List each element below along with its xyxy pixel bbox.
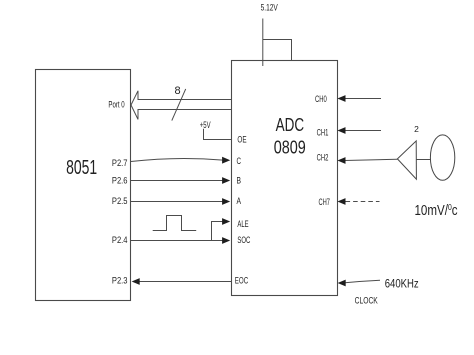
bus Port 0 to ADC (hollow arrow) bbox=[131, 91, 232, 120]
svg-text:CH1: CH1 bbox=[317, 128, 329, 138]
svg-text:P2.3: P2.3 bbox=[112, 276, 128, 286]
IC U2 ADC0809 box bbox=[232, 61, 338, 296]
wire EOC to P2.3 bbox=[139, 281, 232, 283]
wire P2.4 to SOC bbox=[131, 240, 223, 242]
wire transducer triangle to sensor bbox=[416, 159, 430, 161]
svg-text:8051: 8051 bbox=[66, 157, 97, 179]
wire P2.6 to B bbox=[131, 180, 223, 182]
sensor ellipse bbox=[430, 135, 454, 180]
svg-text:OE: OE bbox=[237, 134, 246, 144]
svg-text:+5V: +5V bbox=[200, 120, 211, 130]
svg-text:CH0: CH0 bbox=[315, 94, 327, 104]
svg-text:P2.4: P2.4 bbox=[112, 235, 128, 245]
pulse waveform symbol bbox=[153, 216, 197, 231]
wire P2.5 to A bbox=[131, 201, 223, 203]
svg-text:10mV/0c: 10mV/0c bbox=[415, 202, 458, 219]
svg-text:ALE: ALE bbox=[237, 219, 248, 229]
wire branch P2.4 to ALE bbox=[212, 222, 223, 241]
svg-text:P2.7: P2.7 bbox=[112, 158, 128, 168]
wire P2.7 to C bbox=[131, 158, 223, 161]
transducer amplifier triangle bbox=[397, 141, 416, 179]
svg-text:P2.6: P2.6 bbox=[112, 176, 128, 186]
svg-text:B: B bbox=[237, 176, 242, 186]
wire 5.1V vertical lead bbox=[262, 19, 264, 67]
IC U1 8051 box bbox=[36, 70, 131, 301]
svg-text:8: 8 bbox=[174, 85, 180, 97]
svg-text:640KHz: 640KHz bbox=[385, 279, 419, 291]
bus width slash bbox=[172, 89, 186, 121]
svg-text:SOC: SOC bbox=[237, 235, 250, 245]
svg-text:Port 0: Port 0 bbox=[108, 99, 124, 109]
svg-text:5.12V: 5.12V bbox=[261, 3, 278, 13]
svg-text:A: A bbox=[237, 196, 242, 206]
wire 5.1V step to ADC top bbox=[263, 40, 292, 61]
svg-text:CLOCK: CLOCK bbox=[355, 295, 378, 305]
wire +5V to OE bbox=[204, 129, 232, 140]
svg-text:2: 2 bbox=[414, 124, 419, 134]
wire CH2 input from transducer bbox=[345, 159, 398, 160]
svg-text:C: C bbox=[237, 156, 242, 166]
svg-text:ADC: ADC bbox=[276, 115, 305, 135]
svg-text:CH7: CH7 bbox=[319, 197, 331, 207]
svg-text:P2.5: P2.5 bbox=[112, 196, 128, 206]
wire clock 640KHz input bbox=[345, 280, 380, 283]
wire CH7 input (dashed) bbox=[346, 201, 380, 203]
svg-text:CH2: CH2 bbox=[317, 152, 329, 162]
wire CH1 input bbox=[345, 130, 382, 132]
svg-text:EOC: EOC bbox=[235, 276, 249, 286]
wire CH0 input bbox=[345, 98, 382, 100]
svg-text:0809: 0809 bbox=[274, 136, 306, 157]
